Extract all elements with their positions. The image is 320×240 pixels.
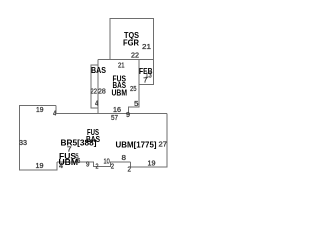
svg-text:9: 9 [126,110,130,119]
svg-text:4: 4 [53,108,56,117]
svg-text:21: 21 [142,42,151,51]
svg-text:FGR: FGR [123,37,139,47]
bottom block step segments [57,162,131,166]
svg-text:UBM: UBM [112,88,128,98]
svg-text:6: 6 [77,156,80,165]
svg-text:57: 57 [111,113,118,122]
svg-text:19: 19 [36,161,44,170]
svg-text:9: 9 [86,159,90,168]
garage TQS/FGR box outline [110,19,154,60]
middle block left edge [97,60,99,114]
svg-text:22: 22 [131,50,139,59]
svg-text:27: 27 [159,139,168,148]
svg-text:4: 4 [95,98,98,107]
middle block right edge [129,60,140,114]
svg-text:5: 5 [134,99,139,108]
svg-text:2: 2 [111,161,114,170]
svg-text:4: 4 [59,161,63,170]
long interior top line [56,113,167,115]
svg-text:2: 2 [128,164,132,173]
left block step to long line [55,106,57,114]
svg-text:22: 22 [91,86,98,95]
svg-text:UBM[1775]: UBM[1775] [116,140,157,150]
svg-text:BR5[388]: BR5[388] [61,138,97,148]
svg-text:33: 33 [19,138,27,147]
svg-text:19: 19 [148,158,156,167]
svg-text:25: 25 [130,84,137,93]
wire top line of middle block [98,59,154,61]
svg-text:21: 21 [118,60,125,69]
BAS wing box [91,65,98,108]
svg-text:7: 7 [143,75,147,84]
svg-text:10: 10 [104,156,110,165]
svg-text:BAS: BAS [91,65,106,75]
svg-text:2: 2 [96,161,99,170]
bottom block right and bottom edges [131,114,168,167]
svg-text:8: 8 [122,153,127,162]
FEB porch box outline [139,60,154,85]
svg-text:19: 19 [36,105,44,114]
svg-text:28: 28 [98,86,106,95]
svg-text:7: 7 [67,145,72,154]
left block outline [20,106,58,171]
